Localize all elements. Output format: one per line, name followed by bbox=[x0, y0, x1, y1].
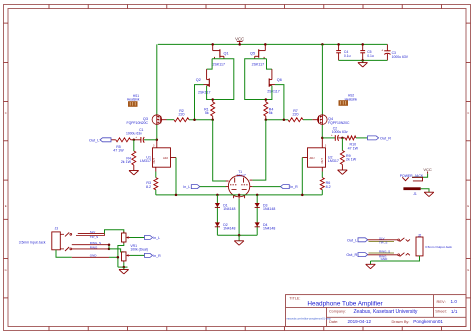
wire jack sleeve to ground bbox=[371, 256, 420, 261]
resistor R6 8.2 bbox=[320, 178, 330, 190]
svg-text:G: G bbox=[467, 268, 469, 272]
ground below volume pot bbox=[119, 267, 129, 274]
jack J2 3.5mm output jack bbox=[416, 233, 452, 256]
wire cathode rail bbox=[156, 194, 322, 196]
wire U1 OUT to R3 bbox=[155, 167, 157, 177]
svg-text:8.2: 8.2 bbox=[146, 185, 151, 189]
wire Q1 gate to Q2 drain bbox=[207, 59, 213, 69]
svg-text:J1: J1 bbox=[413, 192, 417, 196]
wire U1 ADJ bbox=[171, 158, 177, 195]
wire Q4 source to node bbox=[321, 125, 323, 138]
svg-text:3.5mm Input Jack: 3.5mm Input Jack bbox=[19, 240, 46, 244]
wire tube cathode center bbox=[238, 199, 240, 235]
svg-text:E: E bbox=[467, 204, 469, 208]
heatsink HS2 bbox=[339, 94, 358, 106]
svg-text:In_L: In_L bbox=[183, 185, 190, 189]
svg-text:Q6: Q6 bbox=[277, 78, 282, 82]
power jack J1 bbox=[400, 174, 424, 196]
svg-text:LM317: LM317 bbox=[328, 159, 339, 163]
wire VCC rail bbox=[158, 43, 388, 45]
wire VCC to Q4 drain bbox=[321, 44, 323, 115]
wire Q5 source/gate loop bbox=[245, 59, 267, 100]
svg-text:100k (Dual): 100k (Dual) bbox=[130, 247, 148, 251]
ground below diodes bbox=[234, 235, 244, 245]
svg-text:1.0: 1.0 bbox=[451, 299, 458, 304]
wire U2 OUT to R6 bbox=[321, 167, 323, 177]
wire R2 to plate node bbox=[189, 119, 213, 121]
svg-text:easyeda.com/editor-pongkemon01: easyeda.com/editor-pongkemon01-amp bbox=[287, 318, 332, 321]
wire Q6 gate feedback bbox=[275, 85, 284, 120]
svg-text:VCC: VCC bbox=[235, 37, 244, 42]
capacitor C1 1000u 63v bbox=[126, 128, 157, 143]
wire right plate drop bbox=[252, 120, 265, 180]
svg-text:2SK117: 2SK117 bbox=[252, 62, 265, 66]
heatsink HS1 bbox=[127, 94, 140, 107]
title block TITLE row bbox=[289, 297, 457, 308]
svg-text:TIP_S: TIP_S bbox=[90, 235, 98, 239]
wire Q1 source/gate loop bbox=[212, 59, 234, 100]
svg-text:2SK117: 2SK117 bbox=[198, 91, 211, 95]
wire Q3 source to node bbox=[156, 125, 158, 140]
svg-text:Out_L: Out_L bbox=[89, 138, 99, 142]
port Out_L to jack bbox=[347, 238, 368, 243]
resistor R4 2k 1W bbox=[121, 140, 136, 171]
svg-text:220: 220 bbox=[179, 113, 185, 117]
junction dot node A right bbox=[341, 137, 344, 140]
jack J3 ring contact bbox=[60, 247, 71, 251]
junction dot R4 top bbox=[265, 98, 268, 101]
jack J3 tip contact bbox=[60, 232, 71, 236]
svg-text:3.5mm Output Jack: 3.5mm Output Jack bbox=[425, 245, 452, 249]
potentiometer VR1b bbox=[122, 244, 148, 263]
svg-text:E: E bbox=[5, 204, 7, 208]
title block frame bbox=[286, 295, 467, 327]
svg-text:C: C bbox=[5, 111, 7, 115]
svg-text:ADJ: ADJ bbox=[310, 156, 316, 160]
resistor R3 8.2 bbox=[146, 178, 158, 190]
svg-text:RING: RING bbox=[90, 245, 98, 249]
wire jack tip SLV bbox=[76, 230, 105, 239]
svg-text:Out_R: Out_R bbox=[346, 253, 357, 257]
junction dots on VCC rail bbox=[211, 43, 364, 46]
svg-text:47 1W: 47 1W bbox=[113, 149, 124, 153]
regulator U1 LM317 bbox=[140, 140, 171, 167]
port In_R from pot bbox=[145, 253, 162, 258]
svg-text:8.2: 8.2 bbox=[326, 185, 331, 189]
wire R6 bottom to cathode rail bbox=[321, 190, 323, 195]
wire VR1a wiper to In_L bbox=[130, 237, 145, 239]
svg-text:In_R: In_R bbox=[290, 185, 298, 189]
transistor Q6 2SK117 bbox=[267, 69, 282, 94]
junction dot right plate node bbox=[265, 118, 268, 121]
wire power jack to ground bbox=[421, 189, 429, 193]
junction dot right source node bbox=[321, 137, 324, 140]
junction dots on cathode rail bbox=[175, 194, 304, 197]
diode D1 1N4148 bbox=[215, 203, 236, 211]
svg-text:Q5: Q5 bbox=[250, 52, 255, 56]
wire Q4 gate to R7 bbox=[303, 119, 312, 121]
wire jack ring RING bbox=[72, 245, 109, 249]
port Out_R bbox=[368, 136, 392, 141]
wire VCC to Q3 drain bbox=[156, 44, 158, 115]
junction dot left plate node bbox=[211, 118, 214, 121]
VCC flag at power jack bbox=[423, 167, 432, 174]
VCC power flag bbox=[235, 37, 244, 45]
svg-text:+: + bbox=[135, 135, 137, 139]
svg-text:1N4148: 1N4148 bbox=[263, 227, 275, 231]
wire diode chain bottom bbox=[217, 234, 257, 236]
resistor R1 5k bbox=[204, 100, 215, 120]
svg-text:5k: 5k bbox=[269, 111, 273, 115]
svg-text:0.1u: 0.1u bbox=[344, 54, 351, 58]
port In_L at grid bbox=[183, 185, 200, 190]
svg-text:C: C bbox=[467, 111, 469, 115]
capacitor C2 1000u 63v bbox=[322, 127, 348, 141]
svg-text:0.1u: 0.1u bbox=[367, 54, 374, 58]
wire In_L to tube grid bbox=[200, 186, 226, 188]
svg-text:1N4148: 1N4148 bbox=[223, 227, 235, 231]
wire Q3 gate to R2 bbox=[167, 119, 175, 121]
wire tube grid to In_R bbox=[252, 186, 280, 188]
svg-text:Q1: Q1 bbox=[224, 52, 229, 56]
wire left diode chain bbox=[216, 195, 218, 235]
resistor R7 220 bbox=[288, 109, 303, 122]
svg-text:GND: GND bbox=[90, 254, 98, 258]
svg-text:GND: GND bbox=[381, 257, 389, 261]
svg-text:1000u 63v: 1000u 63v bbox=[126, 131, 142, 135]
diode D2 1N4148 bbox=[215, 222, 236, 230]
junction dot node A bbox=[133, 139, 136, 142]
svg-text:J3: J3 bbox=[55, 227, 59, 231]
svg-text:TITLE:: TITLE: bbox=[289, 297, 300, 301]
svg-text:2SK117: 2SK117 bbox=[267, 90, 280, 94]
svg-text:1N4148: 1N4148 bbox=[223, 207, 235, 211]
title block company row bbox=[329, 309, 458, 315]
resistor R10 47 1W bbox=[342, 136, 367, 150]
svg-text:2019-04-12: 2019-04-12 bbox=[348, 319, 372, 324]
svg-text:+: + bbox=[381, 49, 383, 53]
svg-text:SLV: SLV bbox=[90, 230, 95, 234]
potentiometer VR1a bbox=[122, 232, 131, 244]
svg-text:RING_S: RING_S bbox=[379, 250, 390, 254]
resistor R9 2k 1W bbox=[340, 138, 356, 170]
svg-text:TIP_S: TIP_S bbox=[379, 240, 387, 244]
junction dot diode bottom bbox=[238, 234, 241, 237]
wire pot ground rail bbox=[118, 262, 128, 268]
border zone letters bbox=[5, 111, 470, 272]
svg-text:Out_R: Out_R bbox=[380, 136, 391, 140]
transistor Q1 2SK117 bbox=[213, 44, 229, 66]
transistor Q2 2SK117 bbox=[196, 69, 211, 94]
svg-text:OUT: OUT bbox=[320, 158, 324, 164]
junction dot Q6 feedback node bbox=[283, 118, 286, 121]
svg-text:220: 220 bbox=[293, 113, 299, 117]
title block date row bbox=[329, 319, 443, 324]
svg-text:In_L: In_L bbox=[153, 236, 160, 240]
port Out_R to jack bbox=[346, 253, 367, 257]
regulator U2 LM317 bbox=[308, 138, 339, 167]
junction dot caps bottom bbox=[361, 59, 364, 62]
ground below R4 bbox=[129, 170, 139, 172]
wire right diode chain bbox=[256, 195, 258, 235]
svg-text:Q2: Q2 bbox=[196, 78, 201, 82]
wire R7 to plate node bbox=[266, 119, 288, 121]
svg-text:5k: 5k bbox=[205, 111, 209, 115]
svg-text:Drawn By:: Drawn By: bbox=[392, 319, 410, 324]
wire Q5 gate to Q6 drain bbox=[267, 59, 272, 69]
wire VR1a bottom to ground rail bbox=[118, 244, 124, 268]
svg-text:1000u 63V: 1000u 63V bbox=[392, 55, 409, 59]
svg-text:VCC: VCC bbox=[423, 167, 432, 172]
wire VCC to power jack bbox=[412, 174, 428, 178]
capacitor C3 polarized bbox=[381, 44, 409, 60]
wire R3 bottom to cathode rail bbox=[155, 190, 157, 195]
svg-text:2k 1W: 2k 1W bbox=[346, 158, 357, 162]
jack J3 3.5mm input jack bbox=[19, 227, 61, 250]
wire jack ring RING_S bbox=[72, 241, 109, 245]
svg-text:OUT: OUT bbox=[152, 158, 156, 164]
wire jack sleeve GND bbox=[56, 250, 119, 259]
svg-text:LM317: LM317 bbox=[140, 159, 151, 163]
jack J2 ring contact bbox=[398, 253, 410, 257]
svg-text:Date:: Date: bbox=[329, 319, 338, 324]
svg-text:G: G bbox=[5, 268, 7, 272]
wire VR1b wiper to In_R bbox=[130, 254, 145, 256]
capacitor C5 bbox=[360, 44, 374, 60]
svg-text:Company:: Company: bbox=[329, 310, 346, 314]
svg-text:2SK117: 2SK117 bbox=[213, 62, 226, 66]
junction dot Q2 feedback node bbox=[193, 118, 196, 121]
svg-text:FQPF10N20C: FQPF10N20C bbox=[127, 121, 149, 125]
transistor Q5 2SK117 bbox=[250, 44, 265, 66]
wire left plate drop bbox=[213, 120, 226, 181]
wire caps bottom bbox=[339, 59, 388, 61]
wire tip to pot VR1a top bbox=[105, 230, 124, 234]
svg-text:Out_L: Out_L bbox=[347, 238, 357, 242]
jack J2 tip contact bbox=[398, 238, 410, 242]
svg-text:ADJ: ADJ bbox=[163, 156, 169, 160]
diode D3 1N4148 bbox=[255, 203, 276, 211]
svg-text:1N4148: 1N4148 bbox=[263, 207, 275, 211]
wire Q2 gate feedback bbox=[195, 85, 204, 120]
wire Q6 source down bbox=[266, 86, 272, 100]
wire ring to pot VR1b top bbox=[109, 249, 124, 252]
wire Q2 source down bbox=[207, 86, 213, 100]
port Out_L bbox=[89, 138, 111, 143]
capacitor C4 bbox=[336, 44, 350, 60]
svg-text:In_R: In_R bbox=[153, 254, 161, 258]
svg-text:1000u 63v: 1000u 63v bbox=[332, 130, 348, 134]
ground at output jack bbox=[366, 261, 376, 269]
wire U2 ADJ bbox=[302, 158, 307, 195]
svg-text:47 1W: 47 1W bbox=[348, 146, 359, 150]
vacuum tube T1 12au7 bbox=[226, 170, 253, 199]
svg-text:Sheet:: Sheet: bbox=[435, 309, 447, 314]
diode D4 1N4148 bbox=[255, 222, 276, 230]
svg-text:Pongkemon01: Pongkemon01 bbox=[413, 319, 443, 324]
junction dot R1 top bbox=[211, 98, 214, 101]
wire Out_R to jack ring bbox=[368, 250, 398, 259]
ground below R9 bbox=[338, 169, 348, 171]
svg-text:Zeabus, Kasetsart University: Zeabus, Kasetsart University bbox=[354, 309, 418, 315]
resistor R2 220 bbox=[174, 109, 189, 122]
wire Out_L to jack tip bbox=[368, 236, 398, 244]
svg-text:2k 1W: 2k 1W bbox=[121, 160, 132, 164]
svg-text:REV:: REV: bbox=[437, 299, 446, 304]
transistor Q4 FQPF10N20C bbox=[312, 115, 350, 125]
ground for bypass caps bbox=[358, 60, 368, 67]
resistor R4 5k bbox=[264, 100, 274, 120]
wire RING_S to RING join bbox=[108, 243, 111, 250]
svg-text:Headphone Tube Amplifier: Headphone Tube Amplifier bbox=[307, 300, 383, 307]
svg-text:Heatsink: Heatsink bbox=[127, 98, 140, 102]
svg-text:1/1: 1/1 bbox=[451, 309, 458, 314]
transistor Q3 FQPF10N20C bbox=[127, 115, 167, 125]
resistor R5 47 1W bbox=[111, 138, 134, 153]
port In_L from pot bbox=[145, 236, 161, 241]
port In_R at grid bbox=[281, 185, 299, 190]
junction dot left source node bbox=[156, 139, 159, 142]
ground at power jack bbox=[424, 191, 434, 193]
svg-text:FQPF10N20C: FQPF10N20C bbox=[328, 121, 350, 125]
